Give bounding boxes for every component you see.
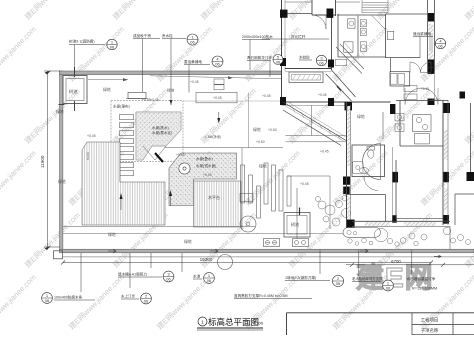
path arrow2 xyxy=(228,76,233,79)
svg-text:水池: 水池 xyxy=(193,274,201,279)
fixture box1 xyxy=(404,86,417,92)
svg-text:老人陪地坪弯打支撑: 老人陪地坪弯打支撑 xyxy=(352,276,383,281)
svg-text:+0.45: +0.45 xyxy=(300,182,309,186)
sink xyxy=(360,168,369,174)
stack box2 xyxy=(214,85,224,90)
half circle door xyxy=(363,144,381,180)
planter tick top xyxy=(74,67,76,77)
double door arcs east xyxy=(421,62,432,73)
pergola bars xyxy=(241,165,245,203)
svg-text:标高总平面图: 标高总平面图 xyxy=(208,317,259,327)
shrub far right xyxy=(451,238,456,243)
wing interior wall v xyxy=(385,195,387,222)
tick 6700 right xyxy=(441,263,445,267)
fixture box2 xyxy=(404,94,417,100)
callout I bubble xyxy=(435,38,445,48)
ramp diagonals xyxy=(283,102,346,141)
svg-text:R=150-100MM: R=150-100MM xyxy=(412,287,437,291)
svg-text:06: 06 xyxy=(319,61,324,66)
door arc 1 xyxy=(312,15,326,29)
far right h wall xyxy=(455,193,474,195)
svg-text:06: 06 xyxy=(386,286,391,291)
toilet bath2b xyxy=(360,29,366,36)
wing bottom wall2 xyxy=(352,225,450,227)
svg-text:+0.45: +0.45 xyxy=(320,150,329,154)
dim line 19300 xyxy=(63,262,431,264)
svg-text:童话黄铺地: 童话黄铺地 xyxy=(184,59,202,64)
bldg wall v1 xyxy=(281,0,283,102)
arrow under C xyxy=(170,100,173,105)
kitchen appliance xyxy=(415,134,430,144)
stair diagonals xyxy=(332,70,356,97)
wing window east xyxy=(404,222,435,226)
bldg wall v4 xyxy=(331,15,333,70)
tick right xyxy=(429,261,433,265)
tree circle inner xyxy=(246,222,250,226)
small circle row xyxy=(348,239,352,243)
bldg wall h4 xyxy=(282,101,391,103)
planter NW outer xyxy=(63,76,87,104)
tick left xyxy=(61,261,65,265)
svg-text:绿地: 绿地 xyxy=(184,239,192,244)
bldg wall h1 xyxy=(312,14,336,16)
svg-text:100x400防腐木条: 100x400防腐木条 xyxy=(54,295,83,300)
corridor door arc xyxy=(364,177,378,191)
svg-text:木纹砂: 木纹砂 xyxy=(299,55,310,60)
bldg wall v1 inner xyxy=(284,0,286,71)
walkway arrow1 xyxy=(108,249,116,253)
bath wall h top xyxy=(337,14,386,16)
svg-text:绿地: 绿地 xyxy=(357,114,365,119)
center wall outer xyxy=(346,102,348,227)
stair side xyxy=(361,0,363,13)
door leaf left xyxy=(404,88,406,105)
toilet xyxy=(367,147,375,151)
svg-text:1味地2·2(钢剪刀撑): 1味地2·2(钢剪刀撑) xyxy=(285,275,316,280)
pond dashed border xyxy=(111,101,183,162)
dim arrow top xyxy=(45,71,52,75)
tree planter S inner xyxy=(287,216,307,235)
corridor south wall xyxy=(386,57,420,59)
pond A texture overlay xyxy=(136,112,181,160)
svg-text:绿地: 绿地 xyxy=(259,164,267,169)
toilet bath2 xyxy=(360,20,366,27)
svg-text:+0.50: +0.50 xyxy=(256,140,265,144)
path line top xyxy=(88,79,128,81)
corridor top wall east xyxy=(386,13,428,15)
bldg wall h3 xyxy=(285,68,332,70)
svg-text:1M #02: 1M #02 xyxy=(430,98,441,102)
stadium planter xyxy=(343,228,381,238)
svg-text:06: 06 xyxy=(166,277,171,282)
callout N leader xyxy=(319,250,321,274)
walkway arrow3 xyxy=(360,249,368,253)
bath wall v mid xyxy=(357,16,359,56)
planter tick xyxy=(299,208,301,216)
top edge rail west xyxy=(285,1,312,3)
bldg wall h3b xyxy=(285,71,332,73)
svg-text:遥远梁铺地: 遥远梁铺地 xyxy=(413,31,431,36)
wall stub below bldg xyxy=(311,106,313,136)
svg-text:06: 06 xyxy=(276,60,281,65)
title underline2 xyxy=(197,329,263,331)
callout N bubble xyxy=(332,275,343,286)
kitchen sink1 xyxy=(395,113,404,121)
wall west band xyxy=(60,71,63,250)
deck east xyxy=(194,181,242,227)
deck west-center L xyxy=(82,142,165,225)
svg-text:+0.45: +0.45 xyxy=(190,80,199,84)
pond B water xyxy=(169,153,237,206)
callout J bubble xyxy=(163,271,174,282)
svg-text:蓝具黑胶打支撑R=0.45M H=0.5M: 蓝具黑胶打支撑R=0.45M H=0.5M xyxy=(234,293,288,298)
AC box outside xyxy=(388,31,394,39)
bldg wall v2 xyxy=(311,0,313,15)
door leaf diagonal xyxy=(372,16,385,29)
svg-text:绿地: 绿地 xyxy=(56,109,64,114)
callout P group xyxy=(411,250,413,274)
SE walk edge v xyxy=(329,176,331,229)
dim ext bottom xyxy=(44,246,60,248)
callout M bubble xyxy=(141,293,152,304)
fountain dot xyxy=(183,167,186,170)
callout F leader xyxy=(269,61,271,78)
callout F bubble xyxy=(273,54,283,64)
bench xyxy=(128,93,146,99)
svg-text:06: 06 xyxy=(215,62,220,67)
svg-text:1:100: 1:100 xyxy=(253,321,264,326)
far right wall xyxy=(470,103,472,172)
svg-text:+0.45: +0.45 xyxy=(213,96,222,100)
drawing title xyxy=(198,317,207,326)
svg-text:19300: 19300 xyxy=(200,257,213,262)
wall south band xyxy=(60,249,474,253)
callout O bubble xyxy=(383,280,394,291)
stair side2 xyxy=(387,0,389,13)
callout M group xyxy=(129,253,131,288)
down arrow center xyxy=(217,118,220,124)
svg-text:水景(瀑布): 水景(瀑布) xyxy=(113,104,130,109)
big room west wall2 xyxy=(392,147,394,219)
stair flight2a xyxy=(336,47,362,74)
svg-text:06: 06 xyxy=(336,281,341,286)
svg-text:木平台: 木平台 xyxy=(208,194,220,200)
wall tick below planter xyxy=(59,104,65,106)
svg-text:树池3·1(固防腐): 树池3·1(固防腐) xyxy=(69,39,95,44)
svg-text:绿地: 绿地 xyxy=(58,179,66,184)
bath wall v east xyxy=(385,14,387,58)
callout H bubble xyxy=(316,55,326,65)
top edge rail east xyxy=(336,1,361,3)
bldg wall h1 west xyxy=(286,13,312,15)
pond A water xyxy=(136,112,181,160)
shower bath1 xyxy=(344,42,353,52)
wing bottom wall xyxy=(352,220,450,222)
callout C bubble xyxy=(187,34,198,45)
stair treads top xyxy=(362,2,388,4)
fountain circle xyxy=(179,163,190,174)
planter circle1 xyxy=(347,230,351,234)
bldg wall h4b xyxy=(282,105,347,107)
svg-text:+0.45: +0.45 xyxy=(262,94,271,98)
lamp box1 xyxy=(264,239,280,247)
stair small arrow xyxy=(337,86,341,91)
far right v wall xyxy=(454,194,456,225)
walk edge below decks xyxy=(63,226,255,228)
callout J group xyxy=(150,253,152,268)
callout A bubble xyxy=(107,39,117,49)
center wall hatch xyxy=(347,106,350,166)
wing interior wall xyxy=(347,194,386,196)
sink bath1 xyxy=(348,19,355,28)
svg-text:+0.50: +0.50 xyxy=(268,128,277,132)
pavilion rect xyxy=(196,93,237,103)
bathroom middle xyxy=(352,145,385,177)
tree on sidewalk xyxy=(218,255,233,270)
tree circle large xyxy=(240,216,256,232)
shrub cluster xyxy=(318,201,326,209)
planter tick bottom xyxy=(74,101,76,111)
svg-text:06: 06 xyxy=(190,40,195,45)
stair flight2b xyxy=(340,44,364,69)
title underline1 xyxy=(197,327,263,329)
svg-text:+0.45: +0.45 xyxy=(150,98,159,102)
SE walk edge h xyxy=(287,175,330,177)
callout K bubble xyxy=(204,273,215,284)
svg-text:06: 06 xyxy=(45,298,50,303)
down arrow tail xyxy=(218,112,220,119)
walk edge lower xyxy=(63,233,346,235)
window box below bath xyxy=(335,60,347,66)
svg-text:2000x300x100枕木: 2000x300x100枕木 xyxy=(242,34,273,39)
stack box1 xyxy=(214,79,224,84)
path line top right xyxy=(150,76,281,79)
appliance2 xyxy=(398,74,405,85)
kitchen xyxy=(396,100,448,102)
columns (black) xyxy=(280,10,288,18)
walk edge long thin xyxy=(183,100,281,102)
svg-text:06: 06 xyxy=(110,45,115,50)
east wing wall inner xyxy=(447,100,449,225)
planter circle2 xyxy=(353,232,356,235)
walk line2 xyxy=(286,141,347,143)
dim line 11900 xyxy=(47,71,49,247)
tree planter leader xyxy=(296,188,298,246)
svg-text:水景(叠水): 水景(叠水) xyxy=(196,156,213,161)
shrub cluster right xyxy=(374,228,387,241)
door leaf right xyxy=(437,88,439,105)
svg-text:青石锻跳花汀步: 青石锻跳花汀步 xyxy=(247,55,273,60)
big room west wall xyxy=(395,160,397,219)
laundry room xyxy=(390,72,410,86)
callout O group xyxy=(358,250,360,276)
svg-text:+0.45: +0.45 xyxy=(176,153,185,157)
sink bath2 xyxy=(360,42,366,51)
svg-text:±0.00: ±0.00 xyxy=(86,152,90,160)
svg-text:树池: 树池 xyxy=(69,88,78,95)
svg-text:绿地: 绿地 xyxy=(108,232,116,237)
deck arrow1 xyxy=(120,193,123,199)
dim line 6700 xyxy=(346,264,474,266)
bench SE xyxy=(240,194,253,202)
laundry west wall up xyxy=(390,58,392,72)
kitchen sink2 xyxy=(395,124,404,131)
east band continuation xyxy=(434,74,436,101)
double door arcs 2 xyxy=(405,88,422,105)
svg-text:水帘墙钢重温订争: 水帘墙钢重温订争 xyxy=(407,276,436,281)
center wall inner xyxy=(350,105,352,220)
svg-text:6700: 6700 xyxy=(391,259,401,264)
pond A V edge xyxy=(143,146,166,160)
balcony box xyxy=(289,72,323,83)
walk edge above pond B xyxy=(165,147,283,149)
svg-text:水景(镜水面): 水景(镜水面) xyxy=(196,163,216,168)
svg-text:06: 06 xyxy=(438,44,443,49)
wall north band xyxy=(60,71,282,75)
svg-text:水景(跌水): 水景(跌水) xyxy=(152,125,169,130)
deck arrow2 xyxy=(169,190,172,196)
svg-text:水上汀步: 水上汀步 xyxy=(121,294,136,299)
ramp ticks xyxy=(292,107,295,113)
svg-text:遮木棚A A1钢剪力: 遮木棚A A1钢剪力 xyxy=(118,272,147,277)
planter NW inner xyxy=(66,79,84,101)
east wing wall outer xyxy=(442,100,444,225)
walk line1 xyxy=(286,135,347,137)
kitchen counter xyxy=(413,115,432,132)
stepping stones xyxy=(120,115,134,120)
svg-text:树池: 树池 xyxy=(291,221,299,227)
shower xyxy=(353,162,364,174)
svg-text:绿地: 绿地 xyxy=(103,87,111,92)
svg-text:子项名称: 子项名称 xyxy=(421,327,439,334)
bath bottom xyxy=(338,56,386,58)
svg-text:贵水柱: 贵水柱 xyxy=(162,33,173,38)
title block table xyxy=(287,312,474,314)
svg-text:06: 06 xyxy=(144,299,149,304)
svg-text:成品秋千桥: 成品秋千桥 xyxy=(133,33,151,38)
deck inner edge xyxy=(119,142,121,182)
path arrow xyxy=(123,78,128,81)
svg-text:+0.45: +0.45 xyxy=(87,134,96,138)
bench lip xyxy=(126,98,148,100)
svg-text:+0.45: +0.45 xyxy=(318,93,327,97)
tree planter S outer xyxy=(284,213,310,238)
wing corner to walkway xyxy=(449,226,451,249)
callout L bubble xyxy=(42,293,53,304)
svg-text:绿地: 绿地 xyxy=(253,127,261,132)
svg-text:06: 06 xyxy=(207,278,212,283)
sidewalk south line xyxy=(63,256,474,258)
slide mark xyxy=(155,153,163,162)
svg-text:水景(蓄水区): 水景(蓄水区) xyxy=(152,130,172,135)
east wall band xyxy=(427,0,429,74)
bldg wall v3 xyxy=(335,0,337,16)
gate post box left xyxy=(54,251,63,259)
walkway arrow2 xyxy=(210,249,218,253)
shower drain xyxy=(356,166,360,170)
sidewalk arrow east xyxy=(434,255,441,258)
callout L group xyxy=(80,253,82,292)
svg-text:11900: 11900 xyxy=(40,155,45,168)
lamp box2 xyxy=(293,239,309,247)
svg-text:1.5M(净深): 1.5M(净深) xyxy=(205,134,221,139)
walk edge right of deck xyxy=(241,148,243,230)
dim ext top xyxy=(44,70,60,72)
svg-text:+0.45: +0.45 xyxy=(203,173,212,177)
callout K group xyxy=(181,253,183,272)
svg-text:朴元栏杆: 朴元栏杆 xyxy=(291,34,306,39)
svg-text:工程项目: 工程项目 xyxy=(421,316,439,323)
ramp line4 xyxy=(288,102,346,137)
tick 6700 left xyxy=(350,263,354,267)
bath wall v west xyxy=(337,14,339,57)
wing window west xyxy=(365,222,390,226)
callout D bubble xyxy=(212,56,223,67)
kitchen west wall xyxy=(382,112,384,139)
svg-text:+0.45: +0.45 xyxy=(421,87,429,91)
balcony ticks xyxy=(293,75,296,80)
appliance1 xyxy=(391,74,398,85)
courtyard divider line xyxy=(247,93,249,148)
dim arrow bottom xyxy=(45,246,52,251)
big room south wall xyxy=(396,218,443,220)
